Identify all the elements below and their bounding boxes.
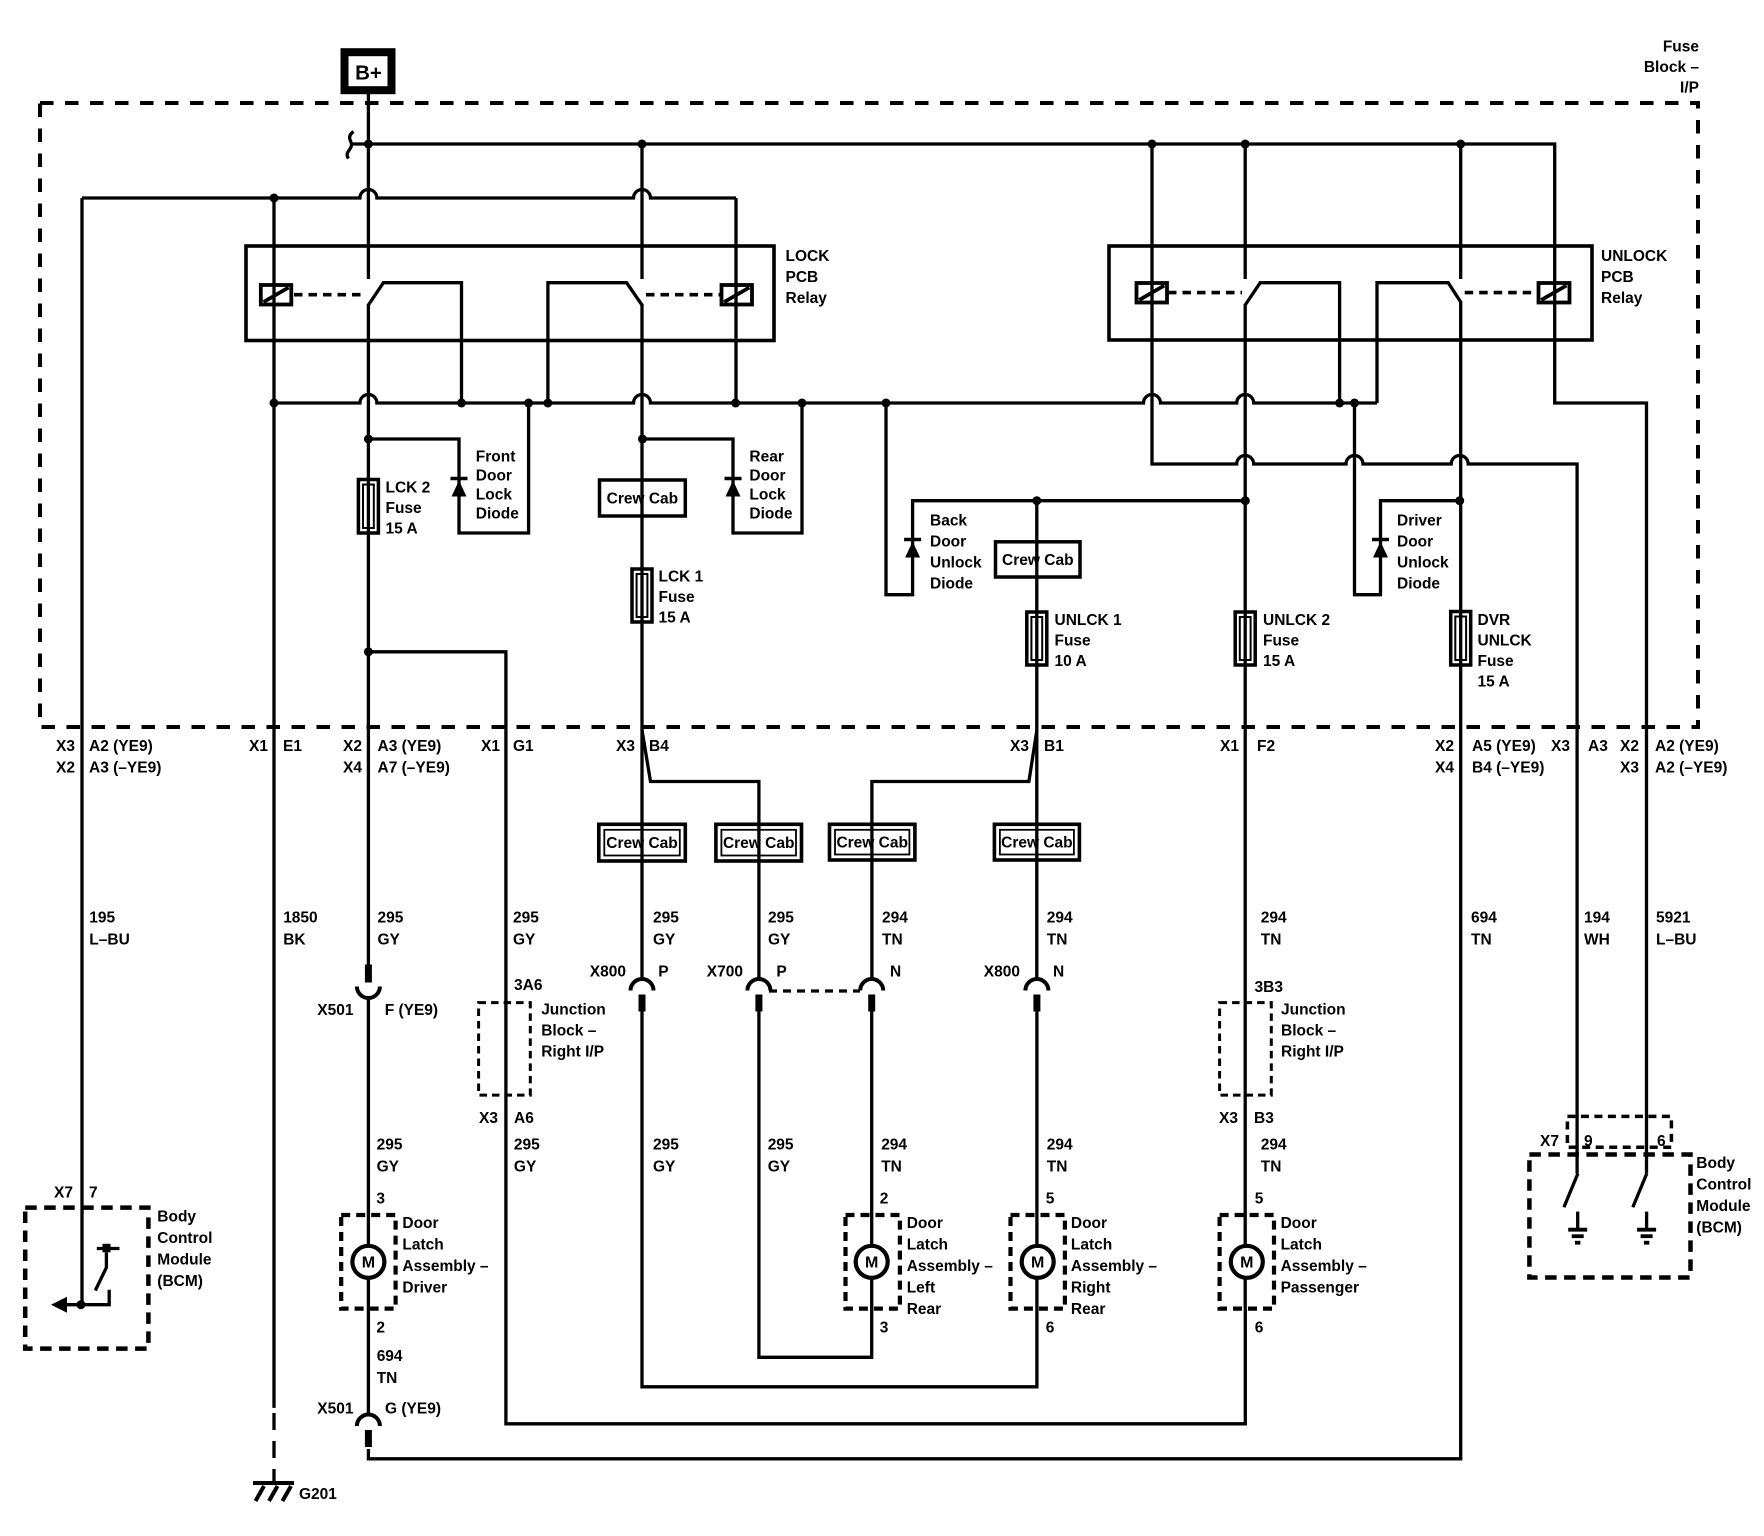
svg-text:WH: WH (1584, 932, 1610, 949)
svg-text:A3 (YE9): A3 (YE9) (378, 738, 442, 755)
svg-text:Fuse: Fuse (1663, 39, 1700, 56)
svg-text:A7 (–YE9): A7 (–YE9) (378, 760, 450, 777)
svg-text:294: 294 (1261, 1137, 1287, 1154)
svg-text:X7: X7 (1540, 1133, 1559, 1150)
svg-text:UNLOCK: UNLOCK (1601, 248, 1668, 265)
svg-text:X3: X3 (1620, 760, 1639, 777)
svg-text:Rear: Rear (907, 1301, 941, 1318)
svg-text:B+: B+ (355, 62, 382, 85)
svg-text:X1: X1 (481, 738, 500, 755)
svg-text:295: 295 (653, 910, 679, 927)
svg-text:GY: GY (768, 1159, 791, 1176)
svg-text:(BCM): (BCM) (157, 1273, 203, 1290)
svg-text:Body: Body (157, 1209, 196, 1226)
svg-text:294: 294 (1261, 910, 1287, 927)
svg-text:GY: GY (378, 932, 401, 949)
svg-text:2: 2 (376, 1320, 385, 1337)
svg-text:F (YE9): F (YE9) (385, 1002, 438, 1019)
svg-text:GY: GY (768, 932, 791, 949)
svg-text:Crew Cab: Crew Cab (607, 491, 679, 508)
svg-text:15 A: 15 A (1478, 674, 1510, 691)
svg-text:295: 295 (378, 910, 404, 927)
svg-text:X3: X3 (479, 1110, 498, 1127)
svg-text:15 A: 15 A (659, 610, 691, 627)
svg-text:M: M (1031, 1255, 1044, 1272)
svg-text:X2: X2 (343, 738, 362, 755)
svg-text:Front: Front (476, 449, 516, 466)
svg-text:294: 294 (881, 1137, 907, 1154)
svg-text:X4: X4 (1435, 760, 1454, 777)
svg-text:Back: Back (930, 513, 967, 530)
svg-text:X1: X1 (1220, 738, 1239, 755)
svg-text:3: 3 (376, 1191, 385, 1208)
svg-text:(BCM): (BCM) (1696, 1220, 1742, 1237)
svg-text:A2 (YE9): A2 (YE9) (89, 738, 153, 755)
svg-text:M: M (865, 1255, 878, 1272)
svg-text:Door: Door (1281, 1215, 1317, 1232)
svg-text:A3 (–YE9): A3 (–YE9) (89, 760, 161, 777)
svg-text:15 A: 15 A (386, 521, 418, 538)
svg-text:295: 295 (514, 1137, 540, 1154)
svg-text:X501: X501 (317, 1002, 354, 1019)
svg-text:Control: Control (1696, 1177, 1751, 1194)
svg-text:Assembly –: Assembly – (1071, 1258, 1158, 1275)
svg-text:Lock: Lock (749, 487, 786, 504)
svg-text:BK: BK (283, 932, 306, 949)
svg-text:194: 194 (1584, 910, 1610, 927)
svg-text:LOCK: LOCK (786, 248, 831, 265)
svg-text:Rear: Rear (1071, 1301, 1105, 1318)
svg-text:Latch: Latch (1071, 1237, 1112, 1254)
svg-text:G1: G1 (513, 738, 534, 755)
svg-text:694: 694 (377, 1348, 403, 1365)
svg-text:6: 6 (1046, 1320, 1055, 1337)
svg-text:Junction: Junction (1281, 1002, 1346, 1019)
svg-text:295: 295 (513, 910, 539, 927)
svg-text:6: 6 (1255, 1320, 1264, 1337)
svg-text:A3: A3 (1588, 738, 1608, 755)
svg-text:Latch: Latch (402, 1237, 443, 1254)
svg-text:UNLCK 2: UNLCK 2 (1263, 612, 1330, 629)
svg-text:294: 294 (1047, 1137, 1073, 1154)
svg-text:294: 294 (882, 910, 908, 927)
svg-text:Driver: Driver (402, 1280, 447, 1297)
svg-text:15 A: 15 A (1263, 653, 1295, 670)
svg-text:G (YE9): G (YE9) (385, 1401, 441, 1418)
svg-text:P: P (658, 964, 668, 981)
svg-text:Door: Door (907, 1215, 943, 1232)
svg-text:A2 (–YE9): A2 (–YE9) (1655, 760, 1727, 777)
svg-text:Door: Door (1397, 534, 1433, 551)
svg-text:A6: A6 (514, 1110, 534, 1127)
svg-text:10 A: 10 A (1055, 653, 1087, 670)
svg-text:X4: X4 (343, 760, 362, 777)
svg-text:TN: TN (377, 1370, 398, 1387)
svg-text:Left: Left (907, 1280, 935, 1297)
svg-text:X7: X7 (54, 1185, 73, 1202)
svg-text:Unlock: Unlock (930, 555, 982, 572)
svg-text:Fuse: Fuse (1055, 633, 1092, 650)
svg-text:P: P (776, 964, 786, 981)
svg-text:TN: TN (881, 1159, 902, 1176)
svg-text:Relay: Relay (786, 290, 828, 307)
svg-text:TN: TN (882, 932, 903, 949)
svg-text:Crew Cab: Crew Cab (723, 835, 795, 852)
svg-text:Right I/P: Right I/P (1281, 1044, 1344, 1061)
svg-text:Door: Door (476, 468, 512, 485)
svg-text:PCB: PCB (786, 269, 819, 286)
svg-text:Rear: Rear (749, 449, 783, 466)
svg-text:L–BU: L–BU (1656, 932, 1696, 949)
svg-text:Module: Module (157, 1252, 212, 1269)
svg-text:A5 (YE9): A5 (YE9) (1472, 738, 1536, 755)
svg-text:1850: 1850 (283, 910, 317, 927)
svg-text:Block –: Block – (541, 1023, 597, 1040)
svg-text:295: 295 (377, 1137, 403, 1154)
svg-text:5921: 5921 (1656, 910, 1691, 927)
svg-text:3A6: 3A6 (514, 977, 543, 994)
svg-text:Body: Body (1696, 1155, 1735, 1172)
svg-text:X2: X2 (1620, 738, 1639, 755)
svg-text:X3: X3 (1010, 738, 1029, 755)
svg-text:UNLCK: UNLCK (1478, 633, 1533, 650)
svg-text:GY: GY (513, 932, 536, 949)
svg-text:Junction: Junction (541, 1002, 606, 1019)
svg-text:Crew Cab: Crew Cab (1002, 552, 1074, 569)
svg-text:LCK 1: LCK 1 (659, 569, 704, 586)
svg-text:Crew Cab: Crew Cab (836, 835, 908, 852)
svg-text:F2: F2 (1257, 738, 1275, 755)
svg-text:X3: X3 (56, 738, 75, 755)
svg-text:Crew Cab: Crew Cab (1001, 835, 1073, 852)
svg-text:5: 5 (1046, 1191, 1055, 1208)
svg-text:Right: Right (1071, 1280, 1111, 1297)
svg-text:295: 295 (768, 1137, 794, 1154)
svg-text:Fuse: Fuse (1478, 653, 1515, 670)
svg-text:A2 (YE9): A2 (YE9) (1655, 738, 1719, 755)
svg-text:6: 6 (1657, 1133, 1666, 1150)
svg-text:Diode: Diode (930, 576, 973, 593)
svg-text:Assembly –: Assembly – (402, 1258, 489, 1275)
svg-text:Passenger: Passenger (1281, 1280, 1359, 1297)
svg-text:Assembly –: Assembly – (1281, 1258, 1368, 1275)
svg-text:Door: Door (402, 1215, 438, 1232)
svg-text:Block –: Block – (1644, 59, 1700, 76)
svg-text:L–BU: L–BU (89, 932, 129, 949)
svg-text:Door: Door (1071, 1215, 1107, 1232)
svg-text:Assembly –: Assembly – (907, 1258, 994, 1275)
svg-text:295: 295 (653, 1137, 679, 1154)
svg-text:DVR: DVR (1478, 612, 1511, 629)
svg-text:LCK 2: LCK 2 (386, 480, 431, 497)
svg-text:X3: X3 (1551, 738, 1570, 755)
svg-text:Right I/P: Right I/P (541, 1044, 604, 1061)
svg-text:TN: TN (1471, 932, 1492, 949)
svg-text:G201: G201 (299, 1486, 337, 1503)
svg-text:TN: TN (1261, 1159, 1282, 1176)
svg-text:X2: X2 (56, 760, 75, 777)
svg-text:X1: X1 (249, 738, 268, 755)
svg-text:B4 (–YE9): B4 (–YE9) (1472, 760, 1544, 777)
svg-text:Diode: Diode (476, 506, 519, 523)
svg-text:694: 694 (1471, 910, 1497, 927)
svg-text:GY: GY (377, 1159, 400, 1176)
svg-text:Relay: Relay (1601, 290, 1643, 307)
svg-text:3B3: 3B3 (1255, 979, 1284, 996)
svg-text:E1: E1 (283, 738, 302, 755)
svg-text:294: 294 (1047, 910, 1073, 927)
svg-text:PCB: PCB (1601, 269, 1634, 286)
svg-text:Lock: Lock (476, 487, 513, 504)
svg-text:X800: X800 (590, 964, 626, 981)
svg-text:Fuse: Fuse (386, 500, 423, 517)
svg-text:X2: X2 (1435, 738, 1454, 755)
svg-text:N: N (890, 964, 901, 981)
svg-text:GY: GY (653, 932, 676, 949)
svg-text:X3: X3 (1219, 1110, 1238, 1127)
svg-text:X3: X3 (616, 738, 635, 755)
svg-text:Diode: Diode (749, 506, 792, 523)
svg-text:3: 3 (880, 1320, 889, 1337)
svg-text:N: N (1053, 964, 1064, 981)
svg-text:Latch: Latch (907, 1237, 948, 1254)
svg-text:X501: X501 (317, 1401, 354, 1418)
svg-text:Latch: Latch (1281, 1237, 1322, 1254)
svg-text:M: M (362, 1255, 375, 1272)
svg-text:GY: GY (514, 1159, 537, 1176)
svg-text:Fuse: Fuse (659, 589, 696, 606)
svg-text:M: M (1240, 1255, 1253, 1272)
svg-text:Crew Cab: Crew Cab (606, 835, 678, 852)
svg-text:Door: Door (930, 534, 966, 551)
svg-text:TN: TN (1261, 932, 1282, 949)
svg-text:Module: Module (1696, 1198, 1751, 1215)
svg-text:Driver: Driver (1397, 513, 1442, 530)
svg-text:B4: B4 (649, 738, 669, 755)
svg-text:7: 7 (89, 1185, 98, 1202)
svg-text:Block –: Block – (1281, 1023, 1337, 1040)
svg-text:GY: GY (653, 1159, 676, 1176)
svg-text:295: 295 (768, 910, 794, 927)
svg-text:195: 195 (89, 910, 115, 927)
svg-text:Door: Door (749, 468, 785, 485)
svg-text:X800: X800 (984, 964, 1020, 981)
svg-text:2: 2 (880, 1191, 889, 1208)
svg-text:X700: X700 (707, 964, 743, 981)
svg-text:Control: Control (157, 1230, 212, 1247)
svg-text:Unlock: Unlock (1397, 555, 1449, 572)
svg-text:UNLCK 1: UNLCK 1 (1055, 612, 1123, 629)
svg-text:TN: TN (1047, 1159, 1068, 1176)
svg-text:Fuse: Fuse (1263, 633, 1300, 650)
svg-text:B1: B1 (1044, 738, 1064, 755)
svg-text:9: 9 (1584, 1133, 1593, 1150)
svg-text:I/P: I/P (1680, 80, 1699, 97)
svg-text:B3: B3 (1254, 1110, 1274, 1127)
svg-text:Diode: Diode (1397, 576, 1440, 593)
svg-text:TN: TN (1047, 932, 1068, 949)
svg-text:5: 5 (1255, 1191, 1264, 1208)
